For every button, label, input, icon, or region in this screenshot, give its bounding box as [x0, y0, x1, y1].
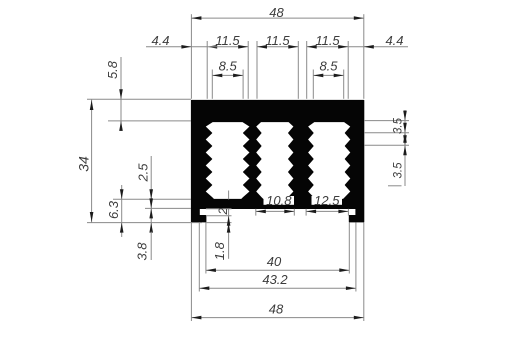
dim 11.5 second — [257, 46, 298, 48]
extension line notch top right of foot — [206, 208, 232, 210]
extension line lip top right of foot — [206, 215, 232, 217]
svg-text:8.5: 8.5 — [319, 59, 338, 74]
svg-text:2.5: 2.5 — [136, 163, 151, 183]
svg-text:3.8: 3.8 — [135, 242, 150, 261]
svg-text:5.8: 5.8 — [105, 60, 120, 79]
dim 2.5 — [150, 156, 152, 232]
extension line slot bottom left — [113, 198, 191, 200]
dim 8.5 right slot — [313, 74, 343, 76]
svg-text:40: 40 — [267, 254, 282, 269]
dim 10.8 middle slot width — [255, 209, 257, 216]
dim 1.8 lip height — [227, 223, 231, 233]
dim 8.5 left slot — [212, 74, 243, 76]
svg-text:11.5: 11.5 — [315, 33, 340, 48]
extension line foot bottom right of foot — [206, 222, 232, 224]
dim 11.5 first — [207, 46, 248, 48]
dim 4.4 left — [146, 46, 207, 48]
svg-text:2: 2 — [216, 208, 230, 216]
extension line feet bottom left — [87, 222, 202, 224]
dim 5.8 — [120, 57, 122, 131]
extension line body top left — [87, 98, 191, 100]
svg-text:12.5: 12.5 — [314, 193, 340, 208]
svg-text:6.3: 6.3 — [106, 200, 121, 219]
svg-text:3.5: 3.5 — [393, 162, 405, 179]
dim 48 bottom — [191, 317, 363, 319]
svg-text:8.5: 8.5 — [219, 59, 238, 74]
svg-text:48: 48 — [269, 302, 284, 317]
svg-text:43.2: 43.2 — [262, 272, 288, 287]
dim 48 top — [191, 17, 363, 19]
svg-text:4.4: 4.4 — [385, 33, 403, 48]
heatsink profile cross-section (black) — [191, 100, 363, 221]
extension line base bottom left — [145, 207, 191, 209]
svg-text:11.5: 11.5 — [215, 33, 240, 48]
dim 40 — [206, 269, 349, 271]
extension lines right side — [364, 120, 409, 122]
svg-text:4.4: 4.4 — [151, 33, 169, 48]
dim 4.4 right — [348, 46, 408, 48]
svg-text:3.5: 3.5 — [393, 117, 405, 134]
svg-text:1.8: 1.8 — [212, 241, 227, 260]
svg-text:10.8: 10.8 — [266, 193, 292, 208]
extension lines top row2 (4.4 / 11.5) — [206, 41, 208, 99]
dim 34 overall height — [91, 99, 93, 222]
dim 43.2 — [199, 287, 356, 289]
dim 3.5 upper — [404, 110, 406, 186]
dim 6.3 — [121, 185, 123, 237]
dim 2 notch height — [228, 191, 230, 200]
svg-text:34: 34 — [76, 156, 92, 172]
extension line slot top left — [108, 120, 191, 122]
extension lines bottom — [190, 223, 192, 322]
extension lines top row3 (8.5) — [211, 70, 213, 99]
dim 12.5 right slot width — [305, 209, 307, 216]
dim 11.5 third — [307, 46, 349, 48]
svg-text:11.5: 11.5 — [265, 33, 290, 48]
extension lines top outer (48) — [190, 14, 192, 99]
svg-text:48: 48 — [269, 5, 284, 20]
